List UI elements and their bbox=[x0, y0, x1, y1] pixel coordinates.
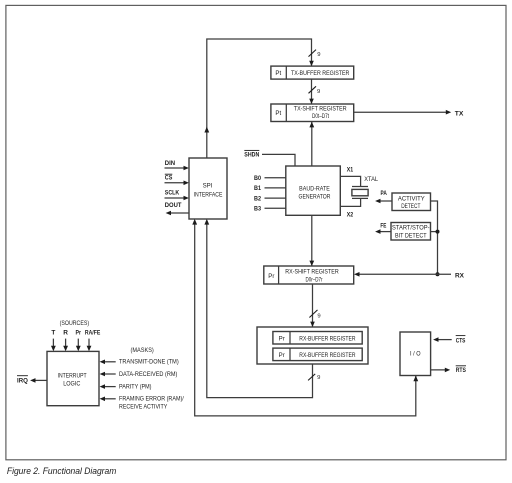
svg-text:DIN: DIN bbox=[165, 160, 176, 167]
wire: source R into INTERRUPT LOGIC bbox=[63, 339, 68, 352]
svg-text:R: R bbox=[63, 330, 68, 337]
svg-text:FRAMING ERROR (RAM)/: FRAMING ERROR (RAM)/ bbox=[119, 396, 184, 403]
svg-text:B0: B0 bbox=[254, 175, 261, 182]
svg-text:D0r–D7r: D0r–D7r bbox=[306, 277, 323, 284]
wire: DOUT out of SPI bbox=[166, 211, 189, 216]
block: START/STOP-BIT DETECT bbox=[391, 223, 431, 241]
svg-text:Pr: Pr bbox=[279, 335, 285, 342]
wire: mask TRANSMIT-DONE into INTERRUPT LOGIC bbox=[100, 360, 116, 365]
block: RX-BUFFER REGISTER stack outer bbox=[257, 327, 368, 364]
svg-text:INTERFACE: INTERFACE bbox=[194, 192, 223, 199]
svg-text:Figure 2. Functional Diagram: Figure 2. Functional Diagram bbox=[7, 466, 117, 476]
wire: B1 bbox=[265, 187, 287, 189]
svg-text:PA: PA bbox=[381, 190, 388, 197]
block: RX-BUFFER REGISTER 1 with Pr bbox=[273, 332, 362, 345]
svg-text:Pt: Pt bbox=[275, 110, 281, 117]
svg-text:DETECT: DETECT bbox=[401, 203, 420, 210]
wire: ACTIVITY DETECT right to RX vertical bbox=[431, 201, 438, 274]
svg-text:DATA-RECEIVED (RM): DATA-RECEIVED (RM) bbox=[119, 371, 177, 378]
svg-text:T: T bbox=[51, 330, 55, 337]
wire: B2 bbox=[265, 197, 287, 199]
wire: RX-SHIFT down to RX-BUFFER stack bbox=[310, 284, 315, 327]
svg-text:GENERATOR: GENERATOR bbox=[299, 194, 331, 201]
svg-text:(SOURCES): (SOURCES) bbox=[60, 320, 90, 327]
svg-text:RX-BUFFER REGISTER: RX-BUFFER REGISTER bbox=[299, 352, 356, 359]
svg-text:X1: X1 bbox=[347, 166, 354, 173]
wire: mask FRAMING ERROR into INTERRUPT LOGIC bbox=[100, 397, 116, 402]
svg-text:ACTIVITY: ACTIVITY bbox=[398, 195, 425, 202]
pin label CTS with overline bbox=[456, 336, 466, 345]
svg-text:B1: B1 bbox=[254, 185, 261, 192]
wire: FE out of START/STOP-BIT DETECT bbox=[375, 229, 391, 234]
wire: SHDN to BAUD-RATE GENERATOR top bbox=[262, 154, 295, 166]
wire: baud clock down into RX-SHIFT bbox=[309, 215, 314, 266]
svg-text:RA/FE: RA/FE bbox=[85, 330, 101, 337]
svg-text:CTS: CTS bbox=[456, 337, 466, 344]
svg-text:SHDN: SHDN bbox=[244, 151, 259, 158]
svg-text:TRANSMIT-DONE (TM): TRANSMIT-DONE (TM) bbox=[119, 359, 179, 366]
wire: RX input line bbox=[354, 272, 451, 277]
block: TX-SHIFT REGISTER D0t-D7t with Pt bbox=[271, 104, 354, 122]
bus slash 9 above TX-SHIFT bbox=[309, 86, 321, 95]
block: RX-BUFFER REGISTER 2 with Pr bbox=[273, 348, 362, 361]
wire: CTS into I/O bbox=[433, 337, 452, 342]
svg-text:(MASKS): (MASKS) bbox=[131, 347, 154, 354]
svg-text:SCLK: SCLK bbox=[165, 189, 180, 196]
svg-text:Pr: Pr bbox=[268, 273, 274, 280]
block: SPI INTERFACE bbox=[189, 158, 227, 219]
svg-text:IRQ: IRQ bbox=[17, 378, 28, 385]
svg-text:RX: RX bbox=[455, 272, 465, 279]
svg-text:RTS: RTS bbox=[456, 367, 467, 374]
svg-text:TX-BUFFER REGISTER: TX-BUFFER REGISTER bbox=[291, 70, 350, 77]
wire: source T into INTERRUPT LOGIC bbox=[51, 339, 56, 352]
wire: SPI to I/O (loop under) bbox=[192, 219, 418, 416]
svg-text:PARITY (PM): PARITY (PM) bbox=[119, 384, 152, 391]
wire: baud clock up into TX-SHIFT bottom bbox=[309, 122, 314, 166]
svg-text:Pt: Pt bbox=[275, 70, 281, 77]
svg-text:B2: B2 bbox=[254, 195, 261, 202]
svg-text:Pr: Pr bbox=[279, 352, 285, 359]
svg-text:LOGIC: LOGIC bbox=[63, 380, 81, 387]
label FRAMING ERROR (RAM)/ RECEIVE ACTIVITY bbox=[119, 396, 184, 411]
bus slash 9 below RX-BUFFER bbox=[308, 374, 320, 381]
svg-text:TX: TX bbox=[455, 111, 464, 118]
svg-text:DOUT: DOUT bbox=[165, 202, 182, 209]
crystal XTAL bbox=[352, 187, 368, 199]
svg-text:RECEIVE ACTIVITY: RECEIVE ACTIVITY bbox=[119, 403, 168, 410]
pin label IRQ with overline bbox=[17, 376, 28, 385]
wire: RTS out of I/O bbox=[431, 368, 451, 373]
wire: X1 to crystal bbox=[341, 176, 361, 186]
svg-text:SPI: SPI bbox=[203, 183, 213, 190]
pin label RTS with overline bbox=[456, 366, 467, 374]
block: INTERRUPT LOGIC bbox=[47, 351, 99, 405]
pin label CS with overline bbox=[165, 174, 173, 181]
svg-text:START/STOP-: START/STOP- bbox=[392, 225, 430, 232]
wire: source Pr into INTERRUPT LOGIC bbox=[76, 339, 81, 352]
wire: mask DATA-RECEIVED into INTERRUPT LOGIC bbox=[100, 372, 116, 377]
svg-text:9: 9 bbox=[317, 313, 320, 319]
wire: SPI top up and over to TX-BUFFER bbox=[204, 39, 313, 158]
svg-text:I / O: I / O bbox=[410, 350, 421, 357]
svg-text:RX-BUFFER REGISTER: RX-BUFFER REGISTER bbox=[299, 335, 356, 342]
block: TX-BUFFER REGISTER with Pt bbox=[271, 66, 354, 79]
svg-text:9: 9 bbox=[317, 375, 320, 381]
junction on RX line bbox=[436, 272, 440, 276]
svg-text:RX-SHIFT REGISTER: RX-SHIFT REGISTER bbox=[285, 269, 339, 276]
pin label SHDN with overline bbox=[244, 150, 259, 158]
svg-text:BIT DETECT: BIT DETECT bbox=[395, 232, 427, 239]
block: RX-SHIFT REGISTER D0r-D7r with Pr bbox=[264, 266, 354, 284]
svg-text:INTERRUPT: INTERRUPT bbox=[58, 372, 87, 379]
wire: IRQ out of INTERRUPT LOGIC bbox=[30, 378, 47, 383]
block: BAUD-RATE GENERATOR bbox=[286, 166, 341, 215]
svg-text:X2: X2 bbox=[347, 212, 354, 219]
wire: crystal to X2 bbox=[341, 198, 361, 206]
wire: CS into SPI bbox=[165, 181, 189, 186]
junction at START/STOP tap bbox=[436, 230, 440, 234]
wire: RX-BUFFER to SPI (loop under) bbox=[204, 219, 312, 398]
svg-text:XTAL: XTAL bbox=[364, 176, 378, 183]
svg-text:9: 9 bbox=[317, 52, 320, 58]
svg-text:CS: CS bbox=[165, 175, 173, 182]
wire: PA out of ACTIVITY DETECT bbox=[375, 199, 392, 204]
wire: mask PARITY into INTERRUPT LOGIC bbox=[100, 384, 116, 389]
block: I/O bbox=[400, 332, 431, 376]
svg-text:Pr: Pr bbox=[76, 330, 82, 337]
bus slash 9 above RX-BUFFER bbox=[309, 310, 320, 319]
svg-text:D0t–D7t: D0t–D7t bbox=[312, 113, 329, 120]
wire: SCLK into SPI bbox=[165, 196, 189, 201]
wire: START/STOP right to RX vertical bbox=[431, 231, 438, 233]
svg-text:9: 9 bbox=[317, 89, 320, 95]
wire: TX-BUFFER to TX-SHIFT bbox=[309, 79, 314, 104]
svg-text:BAUD-RATE: BAUD-RATE bbox=[299, 185, 330, 192]
wire: source RA/FE into INTERRUPT LOGIC bbox=[87, 339, 92, 352]
wire: B3 bbox=[265, 207, 287, 209]
svg-text:TX-SHIFT REGISTER: TX-SHIFT REGISTER bbox=[294, 105, 347, 112]
svg-text:FE: FE bbox=[380, 223, 386, 230]
block: ACTIVITY DETECT bbox=[392, 193, 431, 211]
bus slash 9 above TX-BUFFER bbox=[309, 50, 321, 58]
svg-text:B3: B3 bbox=[254, 206, 261, 213]
wire: TX output bbox=[354, 110, 452, 115]
wire: B0 bbox=[265, 177, 287, 179]
wire: DIN into SPI bbox=[165, 166, 189, 171]
